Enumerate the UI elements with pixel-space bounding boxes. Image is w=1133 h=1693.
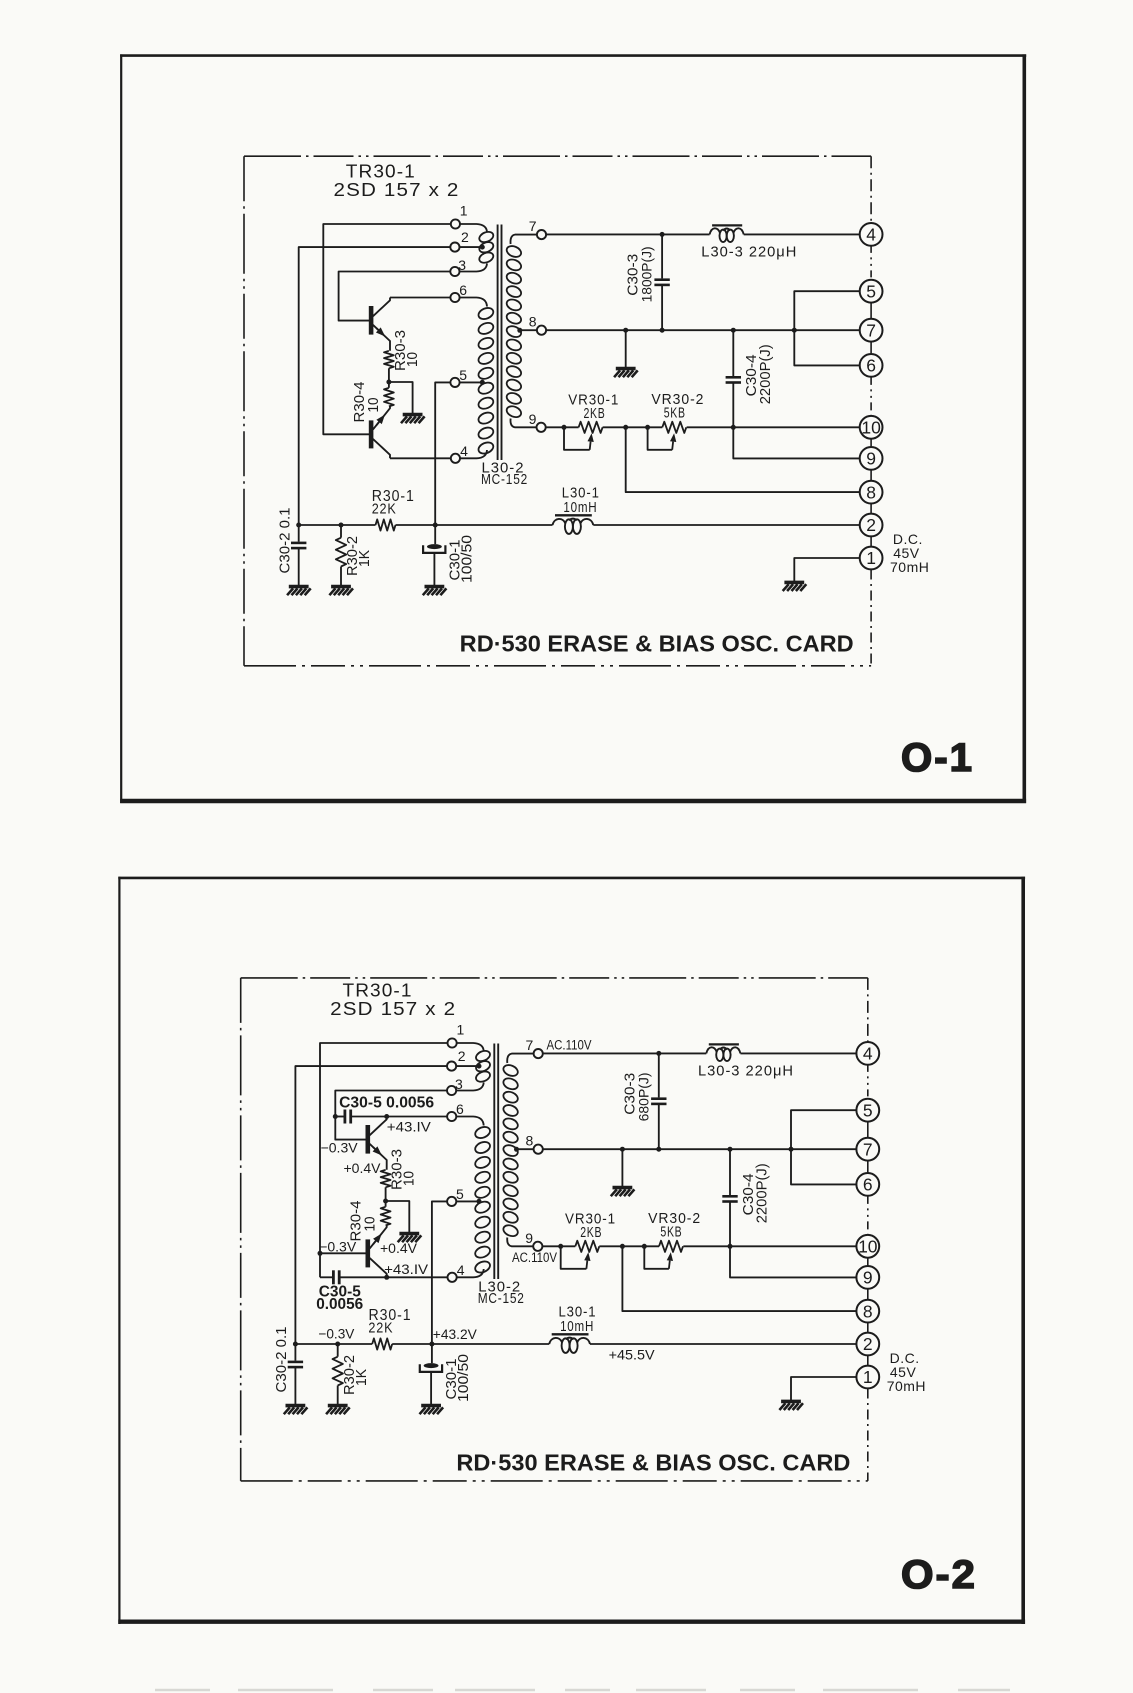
svg-text:RD·530 ERASE & BIAS OSC. CARD: RD·530 ERASE & BIAS OSC. CARD	[456, 1450, 850, 1476]
card edge terminal 5 (O-2)	[856, 1099, 879, 1122]
svg-text:680P(J): 680P(J)	[635, 1072, 651, 1121]
wire node to terminal 9 (O-2)	[730, 1246, 857, 1277]
inductor L30-1 10mH (O-2)	[549, 1304, 596, 1353]
svg-text:1: 1	[457, 1021, 465, 1037]
svg-text:4: 4	[457, 1262, 465, 1278]
transistor Q1 (TR30-1 upper) (O-2)	[368, 1117, 387, 1170]
card outline dash-dot border top (O-2)	[241, 977, 868, 979]
voltage label +43.1V lower (O-2)	[384, 1261, 429, 1277]
svg-text:22K: 22K	[368, 1320, 393, 1337]
svg-text:AC.110V: AC.110V	[547, 1037, 592, 1052]
svg-text:2SD 157 x 2: 2SD 157 x 2	[334, 180, 460, 200]
svg-text:10mH: 10mH	[563, 499, 597, 516]
pin 3 (O-2)	[447, 1076, 484, 1095]
pin 5 (O-1)	[450, 367, 484, 387]
svg-text:10mH: 10mH	[560, 1318, 594, 1335]
svg-text:O-2: O-2	[901, 1553, 977, 1597]
card edge terminal 10 (O-1)	[860, 416, 883, 439]
pin 6 (O-1)	[450, 282, 487, 307]
node R30-3/R30-4 junction (O-1)	[386, 380, 391, 385]
label AC.110V at pin 9 (O-2)	[512, 1250, 557, 1265]
card edge terminal 8 (O-2)	[856, 1300, 879, 1323]
svg-text:10: 10	[401, 1171, 418, 1186]
figure frame O-1	[120, 54, 1026, 803]
transformer label L30-2 MC-152 (O-1)	[481, 460, 528, 488]
pin 2 (O-1)	[450, 229, 485, 252]
voltage label +0.4V upper (O-2)	[344, 1160, 382, 1176]
pin 1 (O-1)	[451, 202, 487, 232]
page bottom scan artifact	[155, 1689, 1010, 1692]
capacitor C30-1 100/50 (O-2)	[420, 1344, 472, 1405]
card edge terminal 10 (O-2)	[856, 1235, 879, 1258]
transistor Q1 (TR30-1 upper) (O-1)	[371, 298, 390, 351]
card edge terminal 4 (O-1)	[860, 223, 883, 246]
svg-text:MC-152: MC-152	[481, 471, 528, 488]
svg-text:7: 7	[866, 320, 876, 340]
capacitor C30-2 0.1 (O-1)	[276, 508, 306, 586]
wire pin3 to Q1 base (O-2)	[335, 1091, 447, 1140]
resistor R30-2 1K (O-1)	[336, 525, 373, 586]
svg-text:70mH: 70mH	[890, 559, 929, 575]
svg-text:−0.3V: −0.3V	[318, 1326, 355, 1342]
wire Q1 collector to pin6 (O-1)	[390, 297, 450, 299]
resistor R30-1 22K (O-2)	[368, 1307, 411, 1350]
card edge terminal 6 (O-2)	[856, 1173, 879, 1196]
pin 7 (O-2)	[507, 1037, 543, 1063]
label D.C. 45V 70mH (O-2)	[887, 1350, 926, 1394]
voltage label +45.5V rail (O-2)	[609, 1347, 656, 1363]
svg-text:+43.IV: +43.IV	[387, 1119, 432, 1135]
inductor L30-3 220uH (O-2)	[698, 1044, 794, 1079]
svg-text:−0.3V: −0.3V	[319, 1238, 357, 1254]
ground at terminal 1 (O-2)	[779, 1401, 803, 1410]
wire pin8 node to terminals 5/7/6 (O-2)	[543, 1110, 857, 1184]
svg-text:−0.3V: −0.3V	[321, 1140, 359, 1156]
card edge terminal 9 (O-2)	[856, 1266, 879, 1289]
svg-text:4: 4	[863, 1044, 873, 1064]
svg-text:22K: 22K	[372, 501, 397, 518]
wire pin2 down to bias rail (O-1)	[299, 247, 451, 525]
resistor R30-4 10 (O-1)	[351, 382, 394, 423]
wire pin8 node ground drop (O-2)	[621, 1149, 623, 1186]
svg-text:1K: 1K	[353, 1369, 370, 1386]
transformer label L30-2 MC-152 (O-2)	[478, 1279, 525, 1307]
card edge terminal 7 (O-2)	[856, 1138, 879, 1161]
card outline dash-dot border top (O-1)	[244, 155, 871, 157]
svg-text:9: 9	[866, 449, 876, 469]
terminal column dash-dot link (O-1)	[870, 156, 872, 666]
svg-text:8: 8	[529, 313, 537, 329]
wire pin1 to Q2 base (O-1)	[323, 224, 451, 434]
wire pin3 to Q1 base (O-1)	[339, 272, 451, 321]
pin 7 (O-1)	[510, 218, 546, 244]
wire bias/supply rail (O-1)	[296, 523, 860, 528]
svg-text:6: 6	[456, 1101, 464, 1117]
svg-text:C30-2 0.1: C30-2 0.1	[276, 508, 293, 574]
capacitor C30-1 100/50 (O-1)	[423, 525, 475, 586]
card outline dash-dot border left (O-2)	[240, 978, 242, 1481]
wire bias/supply rail (O-2)	[293, 1342, 857, 1347]
svg-text:5: 5	[866, 281, 876, 301]
wire pin9 to terminal 10 (O-1)	[546, 425, 860, 430]
svg-text:C30-5 0.0056: C30-5 0.0056	[339, 1095, 434, 1112]
svg-text:10: 10	[365, 398, 382, 413]
wire pin7 to terminal 4 (O-1)	[546, 232, 860, 237]
svg-text:RD·530 ERASE & BIAS OSC. CARD: RD·530 ERASE & BIAS OSC. CARD	[460, 631, 854, 657]
resistor R30-4 10 (O-2)	[348, 1201, 391, 1242]
svg-text:7: 7	[526, 1037, 534, 1053]
wire pin5 down to +supply rail (O-2)	[432, 1201, 447, 1344]
svg-text:C30-2 0.1: C30-2 0.1	[273, 1327, 290, 1393]
pin 5 (O-2)	[447, 1186, 481, 1206]
wire node to terminal 8 (O-1)	[626, 427, 860, 492]
transformer L30-2 primary feedback winding pins 1-2-3 (O-2)	[474, 1049, 491, 1084]
ground at pin8 node (O-2)	[611, 1188, 635, 1197]
voltage label -0.3V upper (O-2)	[321, 1140, 359, 1156]
svg-text:10: 10	[858, 1237, 878, 1257]
svg-text:8: 8	[526, 1132, 534, 1148]
svg-text:3: 3	[458, 257, 466, 273]
card outline dash-dot border left (O-1)	[243, 156, 245, 666]
trimmer VR30-2 5KB (O-1)	[648, 391, 705, 450]
ground below C30-2 (O-1)	[287, 587, 311, 596]
voltage label +0.4V lower (O-2)	[380, 1240, 418, 1256]
inductor L30-1 10mH (O-1)	[553, 485, 600, 534]
svg-text:5KB: 5KB	[664, 404, 686, 421]
ground at terminal 1 (O-1)	[783, 582, 807, 591]
ground below R30-2 (O-2)	[326, 1406, 350, 1415]
capacitor C30-3 680P(J) (O-2)	[621, 1053, 666, 1149]
svg-text:1: 1	[863, 1367, 873, 1387]
svg-text:5: 5	[863, 1100, 873, 1120]
inductor L30-3 220uH (O-1)	[701, 225, 797, 260]
wire pin8 node to terminals 5/7/6 (O-1)	[546, 291, 860, 365]
ground at R30-3/R30-4 junction (O-1)	[401, 415, 425, 424]
label TR30-1 2SD157x2 (O-2)	[330, 981, 456, 1020]
voltage label +43.2V rail (O-2)	[433, 1326, 478, 1342]
svg-text:8: 8	[866, 482, 876, 502]
voltage label -0.3V lower (O-2)	[319, 1238, 357, 1254]
svg-text:2KB: 2KB	[580, 1224, 602, 1241]
card edge terminal 4 (O-2)	[856, 1042, 879, 1065]
svg-text:10: 10	[362, 1217, 379, 1232]
card edge terminal 2 (O-2)	[856, 1333, 879, 1356]
ground below C30-1 (O-1)	[423, 587, 447, 596]
wire node to terminal 9 (O-1)	[733, 427, 860, 458]
svg-text:2: 2	[863, 1334, 873, 1354]
card edge terminal 2 (O-1)	[860, 514, 883, 537]
transformer L30-2 primary feedback winding pins 1-2-3 (O-1)	[478, 230, 495, 265]
ground below R30-2 (O-1)	[329, 587, 353, 596]
resistor R30-2 1K (O-2)	[333, 1344, 370, 1405]
card outline dash-dot border bottom (O-1)	[244, 665, 871, 667]
wire terminal 1 to ground (O-2)	[791, 1377, 857, 1400]
wire pin2 down to bias rail (O-2)	[295, 1066, 447, 1344]
transformer L30-2 core (O-1)	[498, 225, 502, 461]
svg-text:2: 2	[461, 229, 469, 245]
ground below C30-1 (O-2)	[420, 1406, 444, 1415]
resistor R30-3 10 (O-2)	[381, 1149, 418, 1201]
svg-text:1: 1	[460, 202, 468, 218]
svg-text:100/50: 100/50	[455, 1354, 472, 1402]
pin 9 (O-2)	[507, 1230, 542, 1251]
card edge terminal 8 (O-1)	[860, 481, 883, 504]
svg-text:5: 5	[456, 1186, 464, 1202]
pin 1 (O-2)	[448, 1021, 484, 1051]
ground below C30-2 (O-2)	[284, 1406, 308, 1415]
figure number O-1	[901, 736, 974, 780]
svg-text:7: 7	[529, 218, 537, 234]
pin 6 (O-2)	[447, 1101, 484, 1126]
pin 9 (O-1)	[510, 411, 545, 432]
svg-text:5: 5	[459, 367, 467, 383]
svg-text:1800P(J): 1800P(J)	[639, 246, 655, 302]
label TR30-1 2SD157x2 (O-1)	[334, 162, 460, 201]
svg-text:9: 9	[529, 411, 537, 427]
card edge terminal 1 (O-1)	[860, 547, 883, 570]
transistor Q2 (TR30-1 lower) (O-1)	[371, 406, 390, 458]
svg-text:3: 3	[455, 1076, 463, 1092]
capacitor C30-2 0.1 (O-2)	[273, 1327, 303, 1405]
svg-text:9: 9	[863, 1268, 873, 1288]
svg-text:MC-152: MC-152	[478, 1290, 525, 1307]
svg-text:6: 6	[866, 356, 876, 376]
svg-text:5KB: 5KB	[660, 1223, 682, 1240]
pin 8 (O-1)	[517, 313, 546, 334]
svg-text:1K: 1K	[356, 550, 373, 567]
figure frame O-2	[118, 877, 1025, 1624]
svg-text:TR30-1: TR30-1	[346, 162, 416, 182]
svg-text:10: 10	[404, 352, 421, 367]
svg-text:70mH: 70mH	[887, 1378, 926, 1394]
svg-text:2: 2	[866, 515, 876, 535]
svg-text:100/50: 100/50	[459, 535, 476, 583]
svg-text:2200P(J): 2200P(J)	[754, 1163, 771, 1223]
transformer L30-2 secondary winding pins 7-8-9 (O-2)	[502, 1063, 520, 1238]
transformer L30-2 core (O-2)	[494, 1044, 498, 1280]
svg-text:AC.110V: AC.110V	[512, 1250, 557, 1265]
title RD-530 ERASE & BIAS OSC. CARD (O-2)	[456, 1450, 850, 1476]
svg-text:+45.5V: +45.5V	[609, 1347, 656, 1363]
svg-text:+0.4V: +0.4V	[344, 1160, 382, 1176]
svg-text:4: 4	[866, 225, 876, 245]
ground at R30-3/R30-4 junction (O-2)	[398, 1234, 422, 1243]
svg-text:2SD 157 x 2: 2SD 157 x 2	[330, 999, 456, 1019]
trimmer VR30-1 2KB (O-2)	[561, 1211, 616, 1269]
transformer L30-2 secondary winding pins 7-8-9 (O-1)	[505, 244, 523, 419]
terminal column dash-dot link (O-2)	[867, 978, 869, 1481]
capacitor C30-5 0.0056 lower (O-2)	[316, 1251, 389, 1313]
wire pin9 to terminal 10 (O-2)	[543, 1244, 857, 1249]
svg-text:0.0056: 0.0056	[316, 1296, 363, 1313]
svg-text:7: 7	[863, 1139, 873, 1159]
card edge terminal 6 (O-1)	[860, 354, 883, 377]
transistor Q2 (TR30-1 lower) (O-2)	[368, 1225, 387, 1277]
wire pin7 to terminal 4 (O-2)	[543, 1051, 857, 1056]
svg-text:2KB: 2KB	[584, 405, 606, 422]
svg-text:+43.IV: +43.IV	[384, 1261, 429, 1277]
svg-text:2: 2	[458, 1048, 466, 1064]
svg-text:6: 6	[863, 1175, 873, 1195]
svg-text:1: 1	[866, 548, 876, 568]
title RD-530 ERASE & BIAS OSC. CARD (O-1)	[460, 631, 854, 657]
wire terminal 1 to ground (O-1)	[794, 558, 860, 581]
capacitor C30-4 2200P(J) (O-2)	[722, 1149, 770, 1246]
wire node to terminal 8 (O-2)	[622, 1246, 856, 1311]
wire Q2 collector to pin4 (O-1)	[390, 457, 450, 459]
voltage label -0.3V rail (O-2)	[318, 1326, 355, 1342]
resistor R30-3 10 (O-1)	[384, 330, 421, 382]
pin 8 (O-2)	[514, 1132, 543, 1153]
wire junction to ground (O-2)	[386, 1201, 410, 1232]
svg-text:+43.2V: +43.2V	[433, 1326, 478, 1342]
card edge terminal 7 (O-1)	[860, 319, 883, 342]
svg-text:10: 10	[861, 418, 881, 438]
pin 4 (O-2)	[448, 1262, 484, 1282]
wire Q2 collector to pin4 (O-2)	[387, 1276, 447, 1278]
svg-text:+0.4V: +0.4V	[380, 1240, 418, 1256]
ground at pin8 node (O-1)	[614, 369, 638, 378]
wire pin8 node ground drop (O-1)	[625, 330, 627, 367]
capacitor C30-3 1800P(J) (O-1)	[625, 234, 670, 330]
trimmer VR30-2 5KB (O-2)	[644, 1210, 701, 1269]
svg-text:4: 4	[460, 443, 468, 459]
card edge terminal 1 (O-2)	[856, 1366, 879, 1389]
pin 2 (O-2)	[447, 1048, 482, 1071]
svg-text:L30-3 220μH: L30-3 220μH	[698, 1062, 794, 1079]
svg-text:2200P(J): 2200P(J)	[757, 344, 774, 404]
svg-text:TR30-1: TR30-1	[343, 981, 413, 1001]
wire junction to ground (O-1)	[389, 382, 413, 413]
voltage label +43.1V upper (O-2)	[387, 1119, 432, 1135]
wire Q1 collector to pin6 (O-2)	[387, 1116, 447, 1118]
capacitor C30-5 0.0056 upper (O-2)	[333, 1095, 435, 1124]
label AC.110V at pin 7 (O-2)	[547, 1037, 592, 1052]
resistor R30-1 22K (O-1)	[372, 488, 415, 531]
transformer L30-2 primary collector winding pins 6-5-4 (O-1)	[477, 306, 495, 456]
trimmer VR30-1 2KB (O-1)	[564, 392, 619, 450]
card outline dash-dot border bottom (O-2)	[241, 1480, 868, 1482]
node R30-3/R30-4 junction (O-2)	[383, 1199, 388, 1204]
svg-text:L30-3 220μH: L30-3 220μH	[701, 243, 797, 260]
figure number O-2	[901, 1553, 977, 1597]
card edge terminal 9 (O-1)	[860, 447, 883, 470]
capacitor C30-4 2200P(J) (O-1)	[726, 330, 774, 427]
svg-text:9: 9	[525, 1230, 533, 1246]
label D.C. 45V 70mH (O-1)	[890, 531, 929, 575]
pin 4 (O-1)	[451, 443, 487, 463]
wire pin1 to Q2 base (O-2)	[320, 1043, 448, 1253]
svg-text:8: 8	[863, 1301, 873, 1321]
svg-text:6: 6	[459, 282, 467, 298]
pin 3 (O-1)	[450, 257, 487, 276]
svg-text:O-1: O-1	[901, 736, 974, 780]
wire pin5 down to +supply rail (O-1)	[435, 382, 450, 525]
card edge terminal 5 (O-1)	[860, 280, 883, 303]
transformer L30-2 primary collector winding pins 6-5-4 (O-2)	[474, 1125, 492, 1275]
